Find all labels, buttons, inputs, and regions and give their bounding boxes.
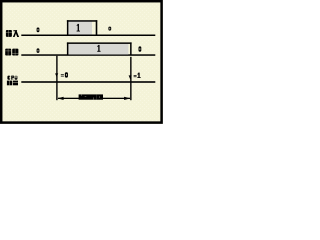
wire: output baseline	[21, 54, 155, 56]
dimension arrow line	[58, 98, 130, 99]
dimension arrowhead left	[57, 97, 63, 100]
output pulse falling edge	[130, 42, 132, 55]
marker line t0 (left vertical)	[56, 56, 57, 100]
label 响应 (response) char 2	[13, 81, 18, 86]
label =1	[134, 74, 137, 77]
label 响应时间 (response time)	[79, 94, 103, 99]
label 输出 (output) char 2	[12, 49, 18, 56]
input pulse fill	[68, 22, 92, 35]
node label 0 (input, right)	[108, 27, 111, 31]
output pulse rising edge	[67, 42, 69, 55]
background halftone texture	[0, 0, 163, 124]
node label 0 (output, right)	[139, 46, 142, 51]
frame border	[1, 1, 161, 122]
arrowhead on t1 marker	[129, 75, 132, 79]
node label 0 (output, left)	[37, 48, 40, 53]
dimension arrowhead right	[124, 97, 130, 100]
node label 1 (output pulse)	[98, 45, 99, 52]
node label 1 (input pulse)	[78, 24, 79, 32]
label 输入 (input) char 2	[13, 30, 19, 37]
input pulse falling edge	[96, 20, 98, 35]
arrowhead on t0 marker	[55, 73, 58, 77]
input pulse rising edge	[67, 20, 69, 35]
input pulse top edge	[67, 20, 97, 22]
marker line t1 (right vertical)	[130, 57, 131, 100]
label CPU	[7, 76, 17, 80]
wire: CPU response line	[21, 81, 155, 83]
label 输入 (input) char 1	[6, 30, 12, 37]
label =0	[61, 73, 64, 76]
wire: input baseline	[21, 35, 155, 37]
label 响应 (response) char 1	[7, 81, 12, 86]
label 输出 (output) char 1	[5, 49, 11, 56]
output pulse fill	[68, 44, 128, 55]
output pulse top edge	[67, 42, 132, 44]
node label 0 (input, left)	[37, 28, 40, 33]
